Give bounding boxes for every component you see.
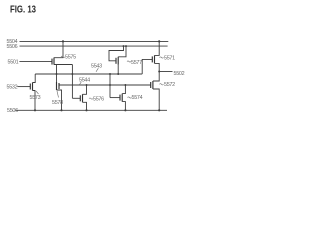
transistor 5573	[30, 83, 32, 91]
wire 5532	[17, 86, 30, 88]
svg-text:5502: 5502	[174, 71, 185, 77]
label 5572	[160, 82, 176, 88]
label 5543	[91, 63, 102, 71]
svg-text:5506: 5506	[7, 108, 18, 114]
svg-text:5576: 5576	[93, 96, 104, 102]
wire 5574 gate feed vertical	[109, 74, 111, 98]
wire 5504 rail	[20, 40, 169, 42]
wire bottom rail label 5506	[7, 108, 18, 114]
svg-text:5571: 5571	[164, 55, 175, 61]
wire 5578 source to bottom rail	[57, 90, 62, 110]
svg-text:5501: 5501	[8, 60, 19, 66]
wire 5576 source to bottom rail	[83, 102, 87, 110]
node dot 5573 source on bottom rail	[34, 109, 36, 111]
label 5544	[79, 77, 90, 84]
node dot 5576 drain on 5544	[86, 84, 88, 86]
svg-text:5578: 5578	[52, 100, 63, 106]
wire 5575 source down to 5578 drain	[56, 65, 58, 83]
node dot 5571 drain on 5504	[158, 40, 160, 42]
wire bottom rail	[15, 109, 167, 111]
wire 5575 source	[54, 64, 72, 66]
label 5571	[160, 55, 176, 61]
node dot 5575 drain on 5504	[62, 40, 64, 42]
wire 5574 drain up to node 5544	[122, 85, 125, 94]
wire 5574 source to bottom rail	[122, 102, 125, 111]
svg-text:5574: 5574	[132, 95, 143, 101]
node dot output	[158, 71, 160, 73]
wire 5573 source to bottom rail	[33, 91, 36, 111]
transistor 5578	[57, 82, 60, 90]
wire 5577 gate jog to 5506	[109, 46, 124, 61]
wire 5501 label	[8, 60, 19, 66]
wire 5577 source down to node 5543	[117, 65, 119, 74]
node dot on 5544 at x110	[109, 84, 111, 86]
svg-text:FIG. 13: FIG. 13	[10, 4, 36, 16]
svg-text:5506: 5506	[7, 44, 18, 50]
svg-text:5577: 5577	[131, 60, 142, 66]
node dot 5577 gate jog on 5506	[123, 45, 125, 47]
node dot on 5543 line at x72.4	[71, 73, 73, 75]
node dot 5577 drain on 5506	[125, 45, 127, 47]
node dot on 5543 line at x56.5	[56, 73, 58, 75]
transistor 5577	[116, 57, 118, 65]
title FIG. 13	[10, 4, 36, 16]
wire 5532 label	[7, 85, 18, 91]
node dot on 5543 at x110	[109, 73, 111, 75]
wire 5572 drain up to output node	[153, 72, 159, 82]
wire output 5502	[159, 71, 172, 73]
wire 5506 rail	[20, 45, 168, 47]
label 5574	[128, 95, 143, 101]
wire 5571 gate to node 5543	[142, 59, 152, 74]
wire 5501	[19, 61, 52, 63]
wire 5506 label	[7, 44, 18, 50]
node 5544 line	[59, 84, 151, 86]
svg-text:5572: 5572	[164, 82, 175, 88]
node dot 5572 source on bottom rail	[158, 109, 160, 111]
wire vertical to 5576 gate	[71, 65, 73, 99]
svg-text:5532: 5532	[7, 85, 18, 91]
node dot 5576 source on bottom rail	[85, 109, 87, 111]
node dot 5578 source on bottom rail	[60, 109, 62, 111]
label 5576	[89, 96, 104, 102]
wire 5574 gate lead	[110, 97, 120, 99]
wire 5575 drain to 5504	[54, 41, 63, 57]
node dot 5574 drain on 5544	[124, 84, 126, 86]
wire 5571 source to output node	[155, 63, 160, 71]
label 5575	[61, 55, 76, 61]
transistor 5574	[120, 94, 122, 102]
transistor 5575	[52, 58, 54, 65]
transistor 5576	[80, 94, 82, 102]
transistor 5571	[152, 55, 154, 63]
svg-text:5543: 5543	[91, 63, 102, 69]
node dot 5577 source on 5543	[117, 73, 119, 75]
wire 5576 gate lead	[72, 97, 80, 99]
wire 5571 drain to 5504	[155, 41, 160, 55]
node 5543 line	[35, 73, 142, 75]
wire 5576 drain up to node 5544	[83, 85, 87, 94]
label 5573	[30, 91, 41, 101]
wire 5572 source to bottom rail	[153, 89, 159, 110]
wire 5504 label	[7, 39, 18, 45]
label 5578	[52, 91, 63, 106]
label 5502	[174, 71, 185, 77]
wire 5577 drain to 5506	[118, 46, 126, 57]
node dot 5574 source on bottom rail	[124, 109, 126, 111]
svg-text:5575: 5575	[65, 55, 76, 61]
wire 5573 drain up to node 5543	[33, 74, 36, 83]
svg-text:5573: 5573	[30, 95, 41, 101]
transistor 5572	[151, 81, 153, 89]
label 5577	[127, 60, 142, 66]
